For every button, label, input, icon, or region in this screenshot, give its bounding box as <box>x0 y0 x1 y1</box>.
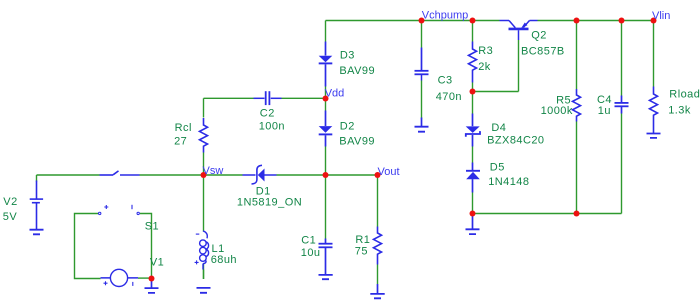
svg-text:BAV99: BAV99 <box>339 136 375 148</box>
wire S1 control right <box>140 214 152 279</box>
svg-text:2k: 2k <box>478 61 491 73</box>
svg-text:V2: V2 <box>3 196 17 208</box>
svg-text:Vlin: Vlin <box>652 10 670 22</box>
svg-text:1N4148: 1N4148 <box>488 176 529 188</box>
svg-text:Vdd: Vdd <box>325 88 345 100</box>
svg-text:Vchpump: Vchpump <box>422 10 468 22</box>
svg-text:D4: D4 <box>491 122 506 134</box>
svg-text:75: 75 <box>355 245 368 257</box>
wire R1 ground lead <box>377 284 379 294</box>
svg-text:D1: D1 <box>256 185 271 197</box>
wire L1 lower <box>203 264 205 280</box>
svg-text:10u: 10u <box>301 247 321 259</box>
wire C2 to Vdd node <box>282 97 326 99</box>
node C4 top junction <box>619 18 625 24</box>
node V1 junction <box>149 276 155 282</box>
svg-text:27: 27 <box>174 136 187 148</box>
svg-text:Vout: Vout <box>378 166 400 178</box>
node D2 bottom junction <box>323 172 329 178</box>
diode D1 <box>243 165 277 184</box>
wire V2 column top <box>36 175 38 182</box>
wire R3 column top <box>472 21 474 42</box>
wire Vsw to D1 <box>204 174 243 176</box>
diode D3 <box>325 42 327 56</box>
svg-text:R3: R3 <box>478 45 493 57</box>
capacitor C1 <box>319 239 333 275</box>
svg-text:C1: C1 <box>301 235 316 247</box>
svg-text:100n: 100n <box>259 120 285 132</box>
svg-text:V1: V1 <box>150 256 164 268</box>
resistor R5 <box>573 89 581 122</box>
wire Rload column top <box>653 21 655 87</box>
svg-text:1u: 1u <box>598 105 611 117</box>
wire switch to Vsw <box>140 174 204 176</box>
node R5 top junction <box>574 18 580 24</box>
wire top rail right (Q2 to Vlin) <box>538 20 654 22</box>
ground D5 node <box>466 229 480 234</box>
node Vchpump junction <box>419 18 425 24</box>
node Vsw junction <box>201 172 207 178</box>
ground C3 <box>415 127 429 132</box>
svg-text:1000k: 1000k <box>541 105 573 117</box>
diode D2 <box>325 111 327 127</box>
source V1 <box>110 269 127 286</box>
wire Vdd horizontal to C2 <box>204 97 254 99</box>
wire node down to C1 <box>325 175 327 239</box>
svg-text:1.3k: 1.3k <box>668 104 691 116</box>
svg-text:D2: D2 <box>340 121 355 133</box>
resistor Rcl <box>200 118 208 153</box>
resistor R1 <box>374 227 382 265</box>
wire Vdd to D2 <box>325 99 327 111</box>
wire Vdd corner down to Rcl <box>203 98 205 117</box>
transistor Q2 emitter arrow <box>521 23 527 29</box>
svg-text:Q2: Q2 <box>531 30 547 42</box>
resistor Rload <box>650 87 658 134</box>
wire base node horizontal <box>473 91 519 93</box>
node Vout junction <box>375 172 381 178</box>
capacitor C4 <box>615 96 629 114</box>
svg-text:470n: 470n <box>436 91 462 103</box>
svg-text:5V: 5V <box>3 211 18 223</box>
wire D5 to bottom rail <box>472 193 474 214</box>
wire R1 bottom to ground lead <box>377 265 379 285</box>
svg-text:C4: C4 <box>597 94 612 106</box>
svg-text:C3: C3 <box>438 75 453 87</box>
wire C4 column top <box>621 21 623 96</box>
diode D4 zener <box>472 114 474 127</box>
wire Vout down to R1 <box>377 175 379 227</box>
wire D2 to Vsw rail <box>325 147 327 176</box>
node R5 bottom junction <box>574 211 580 217</box>
wire R5 column top <box>576 21 578 90</box>
svg-text:1N5819_ON: 1N5819_ON <box>237 197 302 209</box>
switch S1 <box>100 171 140 175</box>
wire V1 to junction <box>138 277 152 279</box>
wire R3 bottom to node <box>472 83 474 92</box>
transistor Q2 <box>500 21 538 41</box>
wire C3 bottom to ground <box>421 81 423 119</box>
wire D3 to Vdd <box>325 87 327 99</box>
wire C4 bottom to rail <box>621 114 623 214</box>
wire bottom rail <box>473 213 622 215</box>
svg-text:S1: S1 <box>145 221 159 233</box>
wire Rcl to Vsw <box>203 153 205 176</box>
svg-text:Rcl: Rcl <box>175 122 192 134</box>
node Vdd junction <box>323 96 329 102</box>
wire Vsw down to L1 <box>203 175 205 232</box>
wire S1 control left <box>75 214 101 279</box>
capacitor C3 <box>415 48 429 81</box>
ground V1 <box>145 288 159 293</box>
svg-text:R1: R1 <box>355 234 370 246</box>
wire R5 bottom to rail <box>576 122 578 214</box>
wire C3 column top <box>421 21 423 48</box>
svg-text:Vsw: Vsw <box>203 165 224 177</box>
svg-text:Rload: Rload <box>669 89 700 101</box>
inductor L1 plus mark <box>195 260 199 264</box>
inductor L1 <box>200 231 209 270</box>
ground C1 <box>319 275 333 279</box>
switch S1 control terminals <box>99 212 101 214</box>
wire D4 to D5 <box>472 147 474 163</box>
svg-text:D5: D5 <box>490 162 505 174</box>
wire D5 node ground lead <box>472 214 474 229</box>
ground R1 <box>370 294 384 298</box>
wire top rail left (Vchpump to Q2) <box>326 20 500 22</box>
switch S1 minus mark <box>131 205 133 209</box>
source V1 minus mark <box>132 282 134 286</box>
wire V1 junction to ground <box>151 279 153 288</box>
wire V2 to switch <box>37 174 100 176</box>
source V1 plus mark <box>104 281 108 285</box>
svg-text:68uh: 68uh <box>211 254 237 266</box>
node Vlin junction <box>651 18 657 24</box>
capacitor C2 <box>254 91 282 105</box>
node R3 bottom junction <box>470 89 476 95</box>
svg-text:L1: L1 <box>212 243 225 255</box>
ground V2 <box>30 230 44 235</box>
resistor R3 <box>469 42 477 83</box>
ground Rload <box>647 134 661 138</box>
node D5 bottom junction <box>470 211 476 217</box>
wire C3 ground lead <box>421 118 423 127</box>
svg-text:C2: C2 <box>260 108 275 120</box>
battery V2 <box>30 181 43 230</box>
ground L1 <box>197 288 211 293</box>
svg-text:D3: D3 <box>340 49 355 61</box>
diode D5 <box>472 163 474 171</box>
wire base node vertical to Q2 <box>518 40 520 92</box>
inductor L1 minus mark <box>196 233 200 235</box>
wire L1 to ground <box>203 270 205 280</box>
svg-text:BAV99: BAV99 <box>339 65 375 77</box>
wire D3 column top <box>325 21 327 42</box>
svg-text:BC857B: BC857B <box>521 46 565 58</box>
node R3 top junction <box>470 18 476 24</box>
svg-text:BZX84C20: BZX84C20 <box>487 135 544 147</box>
wire D1 to node <box>277 174 378 176</box>
switch S1 plus mark <box>104 205 108 209</box>
wire node to D4 <box>472 92 474 114</box>
